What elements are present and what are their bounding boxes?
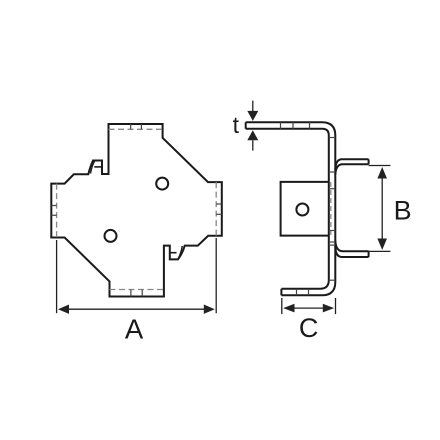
svg-text:A: A: [125, 313, 144, 344]
svg-text:t: t: [233, 112, 240, 138]
svg-text:C: C: [299, 313, 319, 343]
svg-text:B: B: [394, 196, 412, 226]
